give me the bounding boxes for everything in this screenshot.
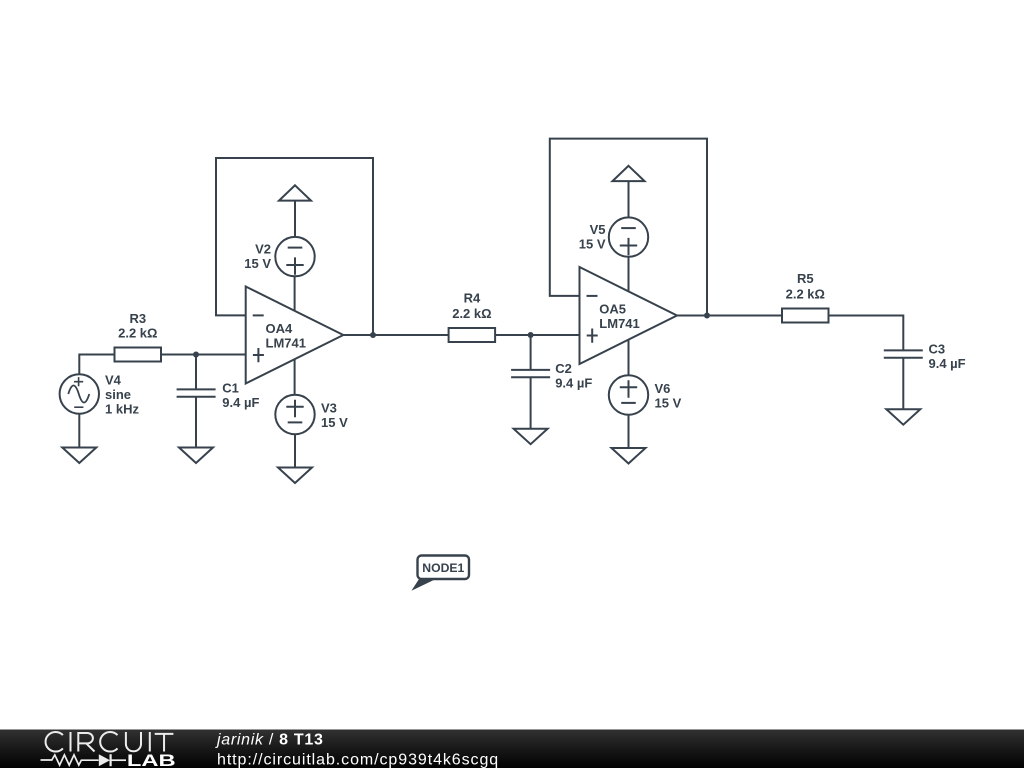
svg-text:V4: V4 <box>105 372 122 387</box>
wire OA4 bottom to V3 <box>294 359 296 395</box>
svg-text:2.2 kΩ: 2.2 kΩ <box>786 286 825 301</box>
ground below C2 <box>514 429 548 445</box>
svg-text:15 V: 15 V <box>655 395 682 410</box>
logo diode <box>99 754 126 766</box>
wire C2 to ground <box>530 377 532 429</box>
svg-text:C1: C1 <box>222 380 239 395</box>
wire C3 to ground <box>902 358 904 410</box>
svg-text:C2: C2 <box>555 361 572 376</box>
node junction at C2 <box>528 332 534 338</box>
CircuitLab logo text CIRCUIT (hand-drawn thin letters) <box>46 732 174 752</box>
svg-text:1 kHz: 1 kHz <box>105 402 139 417</box>
ground below C3 <box>886 409 920 425</box>
wire feedback loop OA4 output to minus input <box>216 158 373 335</box>
wire OA4 output to R4 <box>343 334 448 336</box>
node NODE1 flag <box>411 556 469 591</box>
svg-text:V2: V2 <box>255 242 271 257</box>
svg-text:LM741: LM741 <box>599 316 639 331</box>
wire V3 to ground <box>294 434 296 467</box>
wire feedback loop OA5 output to minus input <box>550 139 707 316</box>
wire R4 to OA5 plus input <box>495 334 579 336</box>
svg-text:sine: sine <box>105 387 131 402</box>
svg-text:OA4: OA4 <box>266 321 294 336</box>
svg-text:9.4 µF: 9.4 µF <box>555 376 592 391</box>
node junction at C1 <box>193 352 199 358</box>
wire OA5 output to R5 <box>677 315 782 317</box>
svg-text:V6: V6 <box>655 381 671 396</box>
wire OA4 top to V2 <box>294 276 296 311</box>
svg-text:OA5: OA5 <box>599 301 626 316</box>
wire V2 to VCC arrow <box>294 201 296 237</box>
svg-text:2.2 kΩ: 2.2 kΩ <box>118 325 157 340</box>
op-amp OA5 <box>580 267 678 364</box>
wire V5 to VCC arrow <box>628 181 630 217</box>
capacitor C2 <box>511 370 550 377</box>
resistor R5 <box>782 309 829 323</box>
svg-text:2.2 kΩ: 2.2 kΩ <box>452 306 491 321</box>
node junction at OA4 output <box>370 332 376 338</box>
ground below V6 <box>612 448 646 464</box>
ground below V4 <box>62 448 96 464</box>
logo resistor zigzag <box>41 755 99 765</box>
wire V6 to ground <box>628 415 630 448</box>
power VCC arrow above V5 <box>613 166 645 181</box>
node junction at OA5 output <box>704 313 710 319</box>
svg-text:15 V: 15 V <box>321 415 348 430</box>
voltage source V6 <box>609 375 648 414</box>
wire R5 to C3 <box>829 316 904 351</box>
capacitor C1 <box>177 389 216 396</box>
svg-text:LM741: LM741 <box>266 335 306 350</box>
svg-text:R4: R4 <box>464 290 481 305</box>
svg-text:9.4 µF: 9.4 µF <box>929 356 966 371</box>
wire V4 bottom to ground <box>78 414 80 448</box>
wire R3 to OA4 plus input <box>161 354 246 356</box>
wire C1 to ground <box>195 397 197 448</box>
svg-text:LAB: LAB <box>127 751 176 768</box>
svg-text:15 V: 15 V <box>579 237 606 252</box>
svg-text:V5: V5 <box>590 222 606 237</box>
voltage source V4 <box>60 374 99 413</box>
svg-text:jarinik / 8 T13: jarinik / 8 T13 <box>215 732 324 749</box>
svg-text:http://circuitlab.com/cp939t4k: http://circuitlab.com/cp939t4k6scgq <box>217 751 499 768</box>
wire V4 top to R3 <box>79 355 114 375</box>
svg-text:15 V: 15 V <box>244 256 271 271</box>
resistor R3 <box>115 348 162 362</box>
capacitor C3 <box>884 350 923 357</box>
svg-text:R3: R3 <box>129 311 146 326</box>
svg-text:V3: V3 <box>321 400 337 415</box>
voltage source V2 <box>275 237 314 276</box>
svg-text:R5: R5 <box>797 271 814 286</box>
wire node to C2 <box>530 335 532 370</box>
op-amp OA4 <box>246 287 344 384</box>
power VCC arrow above V2 <box>279 185 311 200</box>
voltage source V3 <box>275 395 314 434</box>
svg-text:NODE1: NODE1 <box>422 561 464 575</box>
wire node to C1 <box>195 355 197 390</box>
svg-text:C3: C3 <box>929 341 946 356</box>
ground below C1 <box>179 448 213 464</box>
wire OA5 bottom to V6 <box>628 340 630 376</box>
svg-text:9.4 µF: 9.4 µF <box>222 395 259 410</box>
resistor R4 <box>449 328 496 342</box>
voltage source V5 <box>609 217 648 256</box>
ground below V3 <box>278 468 312 484</box>
wire OA5 top to V5 <box>628 257 630 292</box>
